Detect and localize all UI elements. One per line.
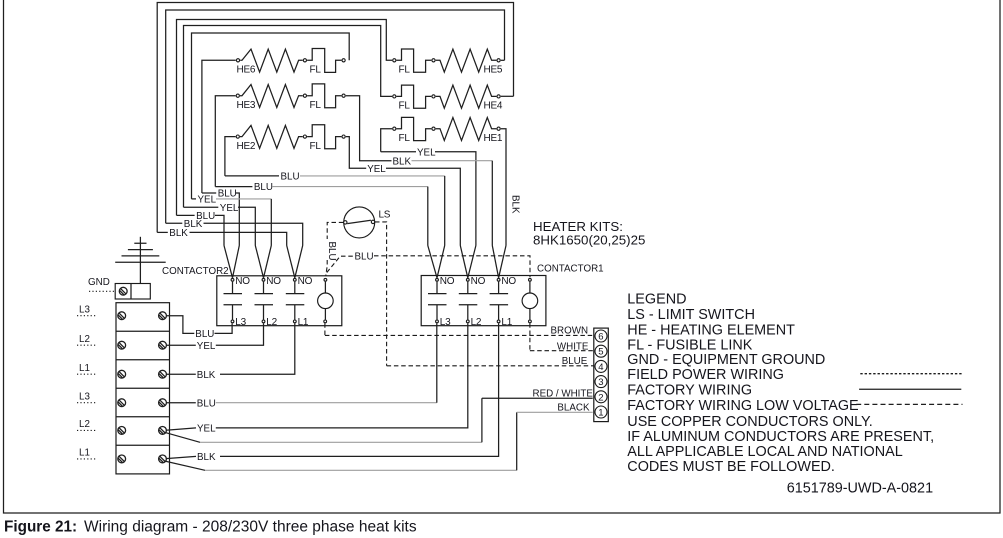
svg-text:IF ALUMINUM CONDUCTORS ARE PRE: IF ALUMINUM CONDUCTORS ARE PRESENT,: [627, 429, 934, 445]
svg-text:CODES MUST BE FOLLOWED.: CODES MUST BE FOLLOWED.: [627, 459, 835, 475]
HEATER KITS note: [533, 219, 645, 248]
wire YEL (block row2 to contactor2 L2): [167, 323, 264, 352]
svg-text:FIELD POWER WIRING: FIELD POWER WIRING: [627, 367, 784, 383]
svg-text:6151789-UWD-A-0821: 6151789-UWD-A-0821: [787, 481, 933, 497]
svg-text:BLK: BLK: [393, 156, 412, 167]
svg-text:BLU: BLU: [254, 182, 273, 193]
heating element HE4: [432, 85, 514, 111]
node L3 row4 label: [77, 392, 97, 403]
fusible link FL (HE3): [307, 84, 345, 111]
svg-text:BLUE: BLUE: [562, 356, 588, 367]
terminal strip pin 4: [595, 360, 607, 373]
svg-text:YEL: YEL: [197, 341, 216, 352]
wire dashed BLU (coil jumper to contactor1 coil): [327, 251, 530, 277]
svg-text:NO: NO: [440, 276, 455, 287]
svg-text:6: 6: [598, 332, 603, 343]
node L2 row5 label: [77, 419, 97, 430]
contactor C2 pole 3: [286, 276, 313, 328]
contactor C2 pole 1: [224, 276, 251, 328]
wire BLK (loop2 to contactor2): [166, 219, 303, 246]
wire BLU (block row1 to contactor2 L3): [167, 316, 233, 340]
fusible link FL (HE2): [307, 125, 345, 152]
svg-text:CONTACTOR1: CONTACTOR1: [537, 264, 604, 275]
heating element HE1: [432, 118, 503, 144]
svg-text:HE2: HE2: [237, 141, 256, 152]
svg-text:L1: L1: [79, 448, 90, 459]
svg-text:LS: LS: [379, 210, 391, 221]
svg-text:L1: L1: [298, 317, 309, 328]
wire YEL (loop5 to contactor2): [192, 195, 272, 246]
wire BLK (block row6 to contactor1 L1): [166, 323, 499, 463]
node L2 row2 label: [77, 334, 97, 345]
svg-text:L1: L1: [501, 317, 512, 328]
legend field power wiring sample: [860, 373, 962, 375]
ground GND lug box: [115, 284, 150, 300]
svg-text:HE3: HE3: [237, 100, 256, 111]
contactor C1 pole 1: [428, 276, 455, 328]
wire loop1 top (HE4 right to BLK elbow): [157, 3, 513, 233]
wire loop4 top (HE4 FL input to YEL elbow): [184, 26, 393, 208]
fusible link FL (HE5): [393, 49, 432, 76]
contactor C1 pole 3: [490, 276, 517, 328]
svg-text:4: 4: [598, 362, 603, 373]
terminal strip pin 3: [595, 376, 607, 389]
wire YEL (block row5 to contactor1 L2): [166, 323, 468, 434]
svg-text:BLK: BLK: [197, 452, 216, 463]
terminal strip pin 5: [595, 345, 607, 358]
legend factory wiring low voltage sample: [856, 403, 962, 405]
svg-text:FL: FL: [310, 141, 322, 152]
terminal block screws: [118, 312, 167, 463]
svg-text:L1: L1: [79, 363, 90, 374]
wire dashed BLU (LS left to contactor2 coil): [326, 222, 344, 275]
svg-text:USE COPPER CONDUCTORS ONLY.: USE COPPER CONDUCTORS ONLY.: [627, 414, 873, 430]
wire loop5 top (HE6 FL output to YEL elbow): [192, 33, 350, 199]
svg-text:YEL: YEL: [198, 195, 217, 206]
svg-text:BROWN: BROWN: [551, 326, 589, 337]
heating element HE6: [202, 49, 307, 193]
wire dashed (LS right down to BLUE line): [375, 222, 387, 366]
wire HE1 right BLK drop to contactor1: [501, 129, 521, 246]
wire BLU (HE3 left to contactor1): [215, 182, 427, 245]
wire RED/WHITE (block row5 to strip 2): [165, 398, 482, 442]
wire BLU (block row4 to contactor1 L3): [167, 323, 437, 409]
svg-text:L3: L3: [79, 392, 90, 403]
wire BLU (HE2 left to contactor1): [225, 171, 445, 245]
fusible link FL (HE1): [381, 117, 432, 151]
wire BLACK (strip 1): [517, 403, 593, 414]
wire BLK (loop1 to contactor2): [157, 228, 287, 246]
svg-text:Wiring diagram - 208/230V thre: Wiring diagram - 208/230V three phase he…: [84, 519, 417, 536]
svg-text:YEL: YEL: [220, 203, 239, 214]
svg-text:HE5: HE5: [484, 64, 503, 75]
contactor C2 coil: [318, 278, 334, 322]
limit switch LS: [344, 207, 391, 238]
svg-text:2: 2: [598, 392, 603, 403]
svg-text:5: 5: [598, 347, 603, 358]
terminal strip box: [594, 328, 609, 422]
svg-text:HE1: HE1: [484, 133, 503, 144]
svg-text:BLACK: BLACK: [557, 403, 590, 414]
svg-text:RED / WHITE: RED / WHITE: [533, 388, 594, 399]
svg-text:Figure 21:: Figure 21:: [4, 519, 77, 536]
svg-text:LS - LIMIT SWITCH: LS - LIMIT SWITCH: [627, 307, 755, 323]
wire YEL (loop4 to contactor2): [184, 203, 256, 246]
contactor C1 label: [537, 264, 604, 275]
svg-text:BLU: BLU: [197, 398, 216, 409]
svg-text:FL: FL: [399, 133, 411, 144]
heating element HE3: [215, 85, 306, 187]
svg-text:YEL: YEL: [367, 164, 386, 175]
svg-text:HE6: HE6: [237, 65, 256, 76]
legend factory wiring sample: [859, 388, 961, 390]
svg-text:BLU: BLU: [195, 329, 214, 340]
wire YEL (HE1 FL to contactor1): [381, 148, 476, 246]
contactor C1 pole 2: [459, 276, 486, 328]
svg-text:L2: L2: [79, 334, 90, 345]
svg-text:NO: NO: [471, 276, 486, 287]
svg-text:NO: NO: [501, 276, 516, 287]
svg-text:NO: NO: [298, 276, 313, 287]
svg-text:WHITE: WHITE: [557, 341, 589, 352]
svg-text:BLU: BLU: [326, 242, 337, 261]
node L1 row6 label: [77, 448, 97, 459]
svg-text:L3: L3: [440, 317, 451, 328]
contactor C2 pole 2: [255, 276, 282, 328]
svg-text:1: 1: [598, 408, 603, 419]
svg-text:HE4: HE4: [484, 100, 503, 111]
svg-text:HE - HEATING ELEMENT: HE - HEATING ELEMENT: [627, 322, 795, 338]
svg-text:GND: GND: [88, 277, 110, 288]
svg-text:FL - FUSIBLE LINK: FL - FUSIBLE LINK: [627, 337, 752, 353]
contactor U-C2 box: [217, 276, 342, 326]
wire BLK (HE3 FL to contactor1): [346, 96, 493, 246]
node L3 row1 label: [77, 305, 97, 316]
terminal strip pin 1: [595, 406, 607, 419]
svg-text:L2: L2: [266, 317, 277, 328]
ground GND symbol: [115, 237, 166, 283]
svg-text:3: 3: [598, 377, 603, 388]
svg-text:BLK: BLK: [169, 228, 188, 239]
svg-text:FL: FL: [310, 65, 322, 76]
svg-text:BLU: BLU: [218, 189, 237, 200]
wire YEL (HE2 FL to contactor1): [346, 137, 461, 246]
figure caption: [4, 519, 417, 536]
svg-text:FL: FL: [399, 65, 411, 76]
svg-text:NO: NO: [235, 276, 250, 287]
svg-text:ALL APPLICABLE LOCAL AND NATIO: ALL APPLICABLE LOCAL AND NATIONAL: [627, 444, 902, 460]
svg-text:YEL: YEL: [197, 424, 216, 435]
wire loop2 top (HE5 right to BLK elbow): [166, 10, 505, 223]
svg-text:BLK: BLK: [510, 195, 521, 214]
svg-text:L3: L3: [79, 305, 90, 316]
svg-text:FACTORY WIRING LOW VOLTAGE: FACTORY WIRING LOW VOLTAGE: [627, 398, 858, 414]
wire BLU (loop3 to contactor2): [177, 211, 225, 246]
node GND label: [88, 277, 114, 291]
svg-text:FL: FL: [399, 101, 411, 112]
fusible link FL (HE4): [393, 85, 432, 112]
contactor C1 coil: [522, 278, 538, 322]
wire BLK (block row3 to contactor2 L1): [167, 323, 295, 381]
svg-text:BLU: BLU: [355, 251, 374, 262]
contactor C2 label: [162, 266, 229, 277]
svg-text:LEGEND: LEGEND: [627, 291, 686, 307]
svg-text:L2: L2: [79, 419, 90, 430]
legend text: [627, 291, 934, 496]
funnel wires into contactor1: [428, 246, 506, 278]
heating element HE2: [225, 125, 307, 175]
heating element HE5: [432, 49, 505, 75]
svg-text:YEL: YEL: [417, 148, 436, 159]
terminal strip pin 2: [595, 391, 607, 404]
wire loop3 top (HE5 FL input to BLU elbow): [177, 20, 393, 216]
wire RED / WHITE (strip 2): [482, 388, 593, 399]
svg-text:BLU: BLU: [281, 171, 300, 182]
svg-text:GND - EQUIPMENT GROUND: GND - EQUIPMENT GROUND: [627, 352, 825, 368]
svg-text:BLK: BLK: [197, 370, 216, 381]
terminal block TB: [116, 303, 170, 474]
svg-text:FACTORY WIRING: FACTORY WIRING: [627, 382, 752, 398]
terminal strip pin 6: [595, 330, 607, 343]
fusible link FL (HE6): [307, 49, 345, 76]
wire BLU (HE6 left to contactor2): [202, 189, 239, 246]
svg-text:L3: L3: [235, 317, 246, 328]
wire dashed BLUE (LS to strip 4): [387, 356, 594, 367]
svg-text:FL: FL: [310, 100, 322, 111]
wire dashed WHITE (contactor1 coil to strip 5): [530, 323, 594, 352]
wire BLACK (block row6 to strip 1): [165, 412, 517, 470]
wire dashed BROWN (contactor2 coil to strip 6): [325, 323, 594, 336]
svg-text:L2: L2: [471, 317, 482, 328]
node L1 row3 label: [77, 363, 97, 374]
svg-text:NO: NO: [266, 276, 281, 287]
svg-text:8HK1650(20,25)25: 8HK1650(20,25)25: [533, 233, 645, 248]
funnel wires into contactor2: [224, 246, 303, 278]
contactor U-C1 box: [421, 276, 546, 326]
